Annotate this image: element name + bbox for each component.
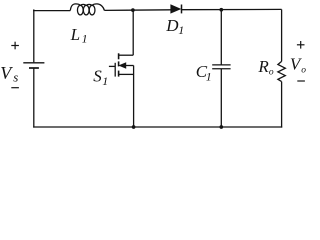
svg-text:R: R: [257, 57, 269, 76]
gate lead: [109, 65, 115, 67]
node junction dot (capacitor / bottom wire): [219, 125, 223, 129]
drain stub: [118, 54, 133, 56]
label plus (Vo): [297, 41, 305, 49]
svg-text:1: 1: [82, 32, 88, 46]
wire top-left horizontal (Vs+ to inductor): [33, 10, 70, 12]
label plus (Vs): [11, 42, 19, 50]
source stub: [118, 73, 134, 75]
svg-text:V: V: [0, 63, 13, 83]
wire capacitor branch bottom: [220, 69, 222, 128]
node junction dot (capacitor / top wire): [219, 8, 223, 12]
wire left vertical (Vs positive lead): [33, 9, 35, 62]
svg-text:o: o: [269, 67, 274, 77]
resistor Ro: [278, 61, 285, 81]
wire resistor branch bottom: [281, 82, 283, 128]
svg-text:s: s: [13, 70, 18, 85]
diode D1: [171, 5, 182, 14]
wire resistor branch top: [281, 9, 283, 61]
body stub: [126, 65, 134, 67]
svg-text:1: 1: [102, 74, 108, 88]
wire bottom return: [33, 126, 282, 128]
svg-text:1: 1: [178, 23, 184, 37]
channel segment drain: [118, 53, 120, 59]
wire top middle (inductor to diode anode): [104, 9, 170, 12]
MOSFET S1: [109, 10, 134, 128]
source lead vertical: [133, 66, 135, 128]
svg-text:o: o: [301, 66, 306, 76]
svg-text:1: 1: [206, 70, 212, 84]
drain lead vertical: [132, 10, 134, 55]
inductor L1: [70, 4, 104, 15]
gate bar: [114, 63, 116, 77]
body arrow: [119, 63, 125, 68]
channel segment source: [118, 71, 120, 77]
label minus (Vs): [11, 87, 19, 89]
wire top right (diode cathode to output corner): [182, 8, 282, 10]
capacitor C1: [212, 65, 230, 69]
node junction dot (source / bottom wire): [132, 125, 136, 129]
battery source Vs: [23, 63, 44, 68]
svg-text:D: D: [165, 16, 179, 35]
svg-text:S: S: [93, 67, 102, 86]
wire capacitor branch top: [220, 10, 222, 65]
channel segment body: [118, 61, 120, 66]
wire left vertical (Vs negative lead): [33, 68, 35, 127]
label minus (Vo): [297, 80, 305, 82]
svg-text:L: L: [70, 25, 80, 44]
node junction dot (drain / top wire): [131, 8, 135, 12]
